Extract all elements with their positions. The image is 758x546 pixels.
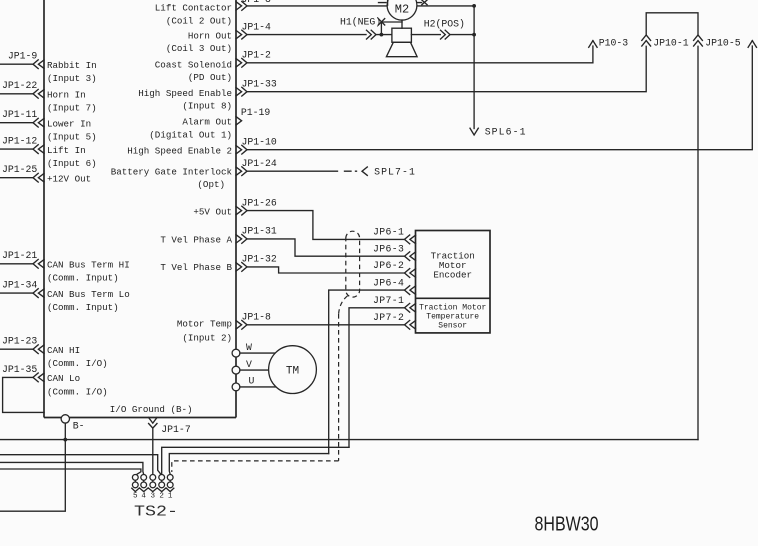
svg-text:JP1-35: JP1-35	[2, 364, 37, 375]
wire JP1-24 battery gate interlock (dash-dot end)	[247, 170, 357, 172]
clipped terminal mark right of M2	[417, 0, 427, 5]
svg-text:JP1-4: JP1-4	[242, 21, 272, 32]
svg-text:P1-19: P1-19	[241, 107, 271, 118]
svg-text:Lower In: Lower In	[47, 119, 91, 130]
svg-text:JP10-5: JP10-5	[705, 38, 740, 49]
svg-text:JP1-9: JP1-9	[8, 51, 38, 62]
connector JP1-33 arrow at box right edge	[236, 88, 242, 96]
svg-text:JP1-32: JP1-32	[242, 254, 277, 265]
svg-text:JP1-23: JP1-23	[2, 336, 37, 347]
svg-text:CAN Lo: CAN Lo	[47, 373, 80, 384]
svg-text:CAN HI: CAN HI	[47, 345, 80, 356]
node junction dot top right	[472, 4, 476, 8]
svg-text:JP1-34: JP1-34	[2, 280, 37, 291]
svg-text:JP1-26: JP1-26	[242, 197, 277, 208]
connector JP1-12 arrow at box left edge	[38, 145, 44, 153]
svg-text:P10-3: P10-3	[599, 38, 629, 49]
wire JP1-31 T vel phase A to JP6-3	[247, 239, 405, 256]
svg-text:(Opt): (Opt)	[197, 179, 225, 190]
chevrons H1 wire	[367, 30, 372, 39]
svg-text:(Comm. I/O): (Comm. I/O)	[47, 386, 108, 397]
svg-text:(Comm. Input): (Comm. Input)	[47, 273, 119, 284]
svg-text:JP1-21: JP1-21	[2, 250, 37, 261]
svg-text:JP6-3: JP6-3	[373, 243, 404, 254]
connector JP6-4 arrow at encoder box edge	[410, 286, 416, 294]
svg-text:JP1-10: JP1-10	[242, 137, 277, 148]
motor terminal W circle	[232, 349, 240, 357]
svg-text:TS2-: TS2-	[134, 504, 178, 520]
svg-text:I/O Ground (B-): I/O Ground (B-)	[110, 404, 193, 415]
shield drain dashed vertical	[338, 314, 340, 461]
svg-text:W: W	[246, 342, 252, 353]
svg-text:T Vel Phase B: T Vel Phase B	[160, 262, 232, 273]
X mark at H1 step corner	[378, 19, 384, 25]
svg-text:JP7-1: JP7-1	[373, 295, 404, 306]
wire JP1-26 +5V out to JP6-1	[247, 211, 405, 240]
svg-text:Traction Motor: Traction Motor	[419, 303, 486, 312]
svg-text:Battery Gate Interlock: Battery Gate Interlock	[111, 167, 233, 178]
connector JP1-11 arrow at box left edge	[38, 119, 44, 127]
wire JP1-9 from left margin	[0, 63, 33, 65]
motor M2 circle (clipped at top)	[387, 0, 417, 20]
unlabeled up arrow far right	[748, 41, 756, 48]
svg-text:(Input 3): (Input 3)	[47, 73, 97, 84]
node H1 junction dot	[380, 33, 384, 37]
svg-text:JP6-4: JP6-4	[373, 277, 404, 288]
controller box bottom edge	[44, 417, 236, 419]
wire horn to H2 chevrons	[411, 34, 440, 36]
svg-text:2: 2	[159, 493, 164, 501]
svg-text:B-: B-	[73, 421, 85, 432]
connector JP6-2 arrow at encoder box edge	[410, 269, 416, 277]
connector JP1-35 arrow at box left edge	[38, 373, 44, 381]
svg-text:SPL7-1: SPL7-1	[374, 167, 416, 178]
svg-text:JP6-2: JP6-2	[373, 260, 404, 271]
wire from left margin to TS2-2	[0, 455, 161, 475]
svg-text:T Vel Phase A: T Vel Phase A	[160, 234, 232, 245]
connector JP6-3 arrow at encoder box edge	[410, 252, 416, 260]
shield drain dashed tail	[339, 296, 348, 314]
connector JP1-26 arrow at box right edge	[236, 206, 242, 214]
wire JP7-1 drop to TS2-2	[162, 447, 349, 474]
wire from left margin to TS2-4	[0, 462, 144, 474]
connector JP1-10 arrow at box right edge	[236, 146, 242, 154]
traction motor encoder box	[416, 231, 491, 333]
svg-text:JP1-11: JP1-11	[2, 109, 37, 120]
svg-text:Rabbit In: Rabbit In	[47, 60, 97, 71]
svg-text:Horn Out: Horn Out	[188, 30, 232, 41]
connector JP1-21 arrow at box left edge	[38, 260, 44, 268]
svg-text:V: V	[246, 359, 252, 370]
svg-text:Lift In: Lift In	[47, 145, 86, 156]
motor terminal V circle	[232, 366, 240, 374]
wire JP1-4 horn out	[247, 34, 366, 36]
svg-text:8HBW30: 8HBW30	[535, 513, 599, 535]
wire JP1-11 from left margin	[0, 122, 33, 124]
svg-text:3: 3	[151, 493, 156, 501]
svg-text:Sensor: Sensor	[438, 321, 467, 330]
svg-text:JP1-33: JP1-33	[242, 79, 277, 90]
svg-text:JP1-31: JP1-31	[242, 226, 277, 237]
wire W to TM	[240, 352, 276, 354]
svg-text:M2: M2	[395, 2, 409, 16]
svg-text:SPL6-1: SPL6-1	[485, 127, 527, 138]
svg-text:JP10-1: JP10-1	[653, 38, 688, 49]
connector top (clipped) arrow at box right edge	[236, 2, 242, 10]
wire bracket JP10-1 to JP10-5	[646, 13, 698, 35]
wire M2 right side to right vertical	[417, 5, 474, 7]
svg-text:H1(NEG): H1(NEG)	[340, 16, 381, 27]
svg-text:(Input 6): (Input 6)	[47, 158, 97, 169]
wire JP1-23 from left margin	[0, 348, 33, 350]
wire JP1-21 from left margin	[0, 263, 33, 265]
traction motor TM circle	[269, 346, 317, 394]
svg-text:JP1-8: JP1-8	[242, 312, 272, 323]
connector JP6-1 arrow at encoder box edge	[410, 235, 416, 243]
wire H2 to right vertical	[450, 34, 474, 36]
svg-text:JP1-7: JP1-7	[161, 424, 191, 435]
svg-text:1: 1	[168, 493, 173, 501]
svg-text:JP6-1: JP6-1	[373, 227, 404, 238]
wire JP1-33 high speed enable	[247, 46, 646, 91]
svg-text:5: 5	[133, 493, 138, 501]
svg-text:JP1-24: JP1-24	[242, 158, 277, 169]
svg-text:JP1-12: JP1-12	[2, 136, 37, 147]
wire JP1-12 from left margin	[0, 148, 33, 150]
connector JP1-4 arrow at box right edge	[236, 30, 242, 38]
wire JP1-10 high speed enable 2	[247, 46, 752, 150]
node H2 junction dot	[472, 33, 476, 37]
connector JP1-24 arrow at box right edge	[236, 167, 242, 175]
svg-text:(Input 2): (Input 2)	[182, 332, 232, 343]
wire H1 step up to motor stem	[381, 22, 402, 35]
wire lift contactor out (top, clipped row)	[247, 5, 387, 7]
node B- circle on box bottom	[61, 415, 69, 423]
splice SPL7-1 left chevron	[362, 167, 367, 175]
svg-text:JP1-22: JP1-22	[2, 80, 37, 91]
chevrons H2 wire	[441, 30, 446, 39]
connector JP1-25 arrow at box left edge	[38, 174, 44, 182]
TS2 pin 2 circles	[161, 480, 163, 482]
svg-text:(Input 8): (Input 8)	[182, 101, 232, 112]
controller box right edge	[235, 0, 237, 418]
svg-text:JP7-2: JP7-2	[373, 312, 404, 323]
wire B- bus (long horizontal)	[0, 439, 698, 441]
svg-text:(Digital Out 1): (Digital Out 1)	[149, 129, 232, 140]
connector JP1-7 down arrows at box bottom	[149, 418, 157, 424]
wire from left margin to TS2-5	[0, 469, 141, 475]
shield oval (dashed stadium)	[346, 231, 360, 297]
svg-text:+5V Out: +5V Out	[193, 206, 232, 217]
connector JP10-1 up arrows	[642, 41, 651, 46]
svg-text:Lift Contactor: Lift Contactor	[155, 2, 232, 13]
connector P10-3 up arrow	[589, 41, 597, 48]
connector JP1-31 arrow at box right edge	[236, 235, 242, 243]
TS2 sawtooth base	[132, 488, 174, 492]
svg-text:(Coil 2 Out): (Coil 2 Out)	[166, 16, 232, 27]
svg-text:U: U	[249, 375, 255, 386]
svg-text:Encoder: Encoder	[433, 270, 472, 281]
svg-text:Horn In: Horn In	[47, 90, 86, 101]
connector JP7-2 arrow at encoder box edge	[410, 321, 416, 329]
svg-text:High Speed Enable: High Speed Enable	[138, 88, 232, 99]
svg-text:CAN Bus Term Lo: CAN Bus Term Lo	[47, 289, 130, 300]
svg-text:JP1-25: JP1-25	[2, 164, 37, 175]
connector JP1-34 arrow at box left edge	[38, 289, 44, 297]
TS2 pin 4 circles	[143, 480, 145, 482]
divider encoder/temp sensor	[416, 297, 491, 299]
connector P1-19 arrow (no wire)	[236, 117, 242, 125]
wire JP6-4 to lower left drop	[329, 290, 405, 454]
horn H bell (trapezoid)	[386, 42, 417, 56]
svg-text:Temperature: Temperature	[426, 312, 479, 321]
svg-text:(Comm. I/O): (Comm. I/O)	[47, 358, 108, 369]
svg-text:(Comm. Input): (Comm. Input)	[47, 302, 119, 313]
svg-text:(PD Out): (PD Out)	[188, 72, 232, 83]
controller box left edge	[43, 0, 45, 418]
node junction dot B- bus	[63, 438, 67, 442]
wire V to TM	[240, 369, 269, 371]
connector JP1-8 arrow at box right edge	[236, 321, 242, 329]
TS2 pin 3 circles	[152, 480, 154, 482]
svg-text:JP1-3: JP1-3	[242, 0, 272, 5]
shield drain dashed horizontal to TS2-1	[172, 461, 339, 472]
horn H body (square)	[392, 28, 412, 42]
svg-text:(Input 7): (Input 7)	[47, 103, 97, 114]
connector JP7-1 arrow at encoder box edge	[410, 304, 416, 312]
connector JP1-23 arrow at box left edge	[38, 345, 44, 353]
svg-text:CAN Bus Term HI: CAN Bus Term HI	[47, 260, 130, 271]
connector JP1-2 arrow at box right edge	[236, 59, 242, 67]
connector JP1-9 arrow at box left edge	[38, 60, 44, 68]
svg-text:+12V Out: +12V Out	[47, 174, 91, 185]
wire JP1-8 motor temp to JP7-2	[247, 324, 405, 326]
wire vertical down to SPL6-1	[473, 6, 475, 129]
wire B- down and out left	[0, 440, 65, 512]
svg-text:TM: TM	[286, 366, 299, 378]
wire JP1-7 to TS2-3	[152, 428, 154, 475]
wire M2 stem to horn	[401, 20, 403, 28]
wire B- drop	[64, 423, 66, 440]
svg-text:JP1-2: JP1-2	[242, 50, 272, 61]
wire chevron to H1 node	[376, 34, 392, 36]
wire JP10-5 down to B- bus	[697, 46, 699, 439]
svg-text:Alarm Out: Alarm Out	[182, 117, 232, 128]
svg-text:Coast Solenoid: Coast Solenoid	[155, 60, 232, 71]
wire JP1-25 from left margin	[0, 177, 33, 179]
wire JP1-2 coast solenoid	[247, 46, 593, 63]
svg-text:H2(POS): H2(POS)	[424, 19, 465, 30]
wire JP1-22 from left margin	[0, 93, 33, 95]
motor terminal U circle	[232, 383, 240, 391]
connector JP10-5 up arrows	[694, 41, 703, 46]
TS2 pin 1 circles	[169, 480, 171, 482]
svg-text:Motor Temp: Motor Temp	[177, 318, 232, 329]
clipped terminal mark left of M2	[379, 0, 388, 5]
wire JP7-1 drop	[349, 308, 405, 448]
wire JP6-4 drop to TS2-1	[169, 454, 328, 475]
splice SPL6-1 down arrow	[470, 128, 478, 135]
svg-text:(Coil 3 Out): (Coil 3 Out)	[166, 43, 232, 54]
wire JP1-32 T vel phase B to JP6-2	[247, 267, 405, 273]
wire JP1-34 from left margin	[0, 292, 33, 294]
wire U to TM	[240, 386, 276, 388]
svg-text:4: 4	[141, 493, 146, 501]
wire JP1-35 (CAN Lo) left then down then right into box edge	[3, 377, 44, 412]
svg-text:(Input 5): (Input 5)	[47, 132, 97, 143]
connector JP1-32 arrow at box right edge	[236, 263, 242, 271]
connector JP1-22 arrow at box left edge	[38, 90, 44, 98]
TS2 pin 5 circles	[134, 480, 136, 482]
svg-text:High Speed Enable 2: High Speed Enable 2	[127, 145, 232, 156]
